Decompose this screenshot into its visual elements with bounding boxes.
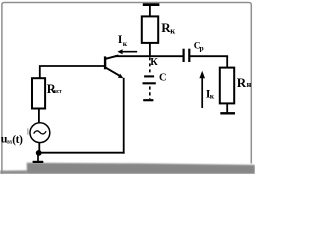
resistor Rk body [142,16,158,43]
svg-text:к: к [170,26,175,36]
arrow In [199,71,205,108]
capacitor Cp right plate [188,49,190,62]
stray mark (scan artifact) [27,128,28,134]
svg-text:R: R [237,75,247,90]
label In [206,86,215,100]
source sine symbol [34,131,47,134]
arrow Ik [117,49,137,54]
wire base horizontal [40,66,105,79]
wire bottom return [39,152,125,154]
wire dot to ground [37,153,39,161]
resistor Rist body [32,78,45,108]
svg-text:К: К [150,57,158,68]
ground bar main [33,161,44,163]
label Rn [237,75,252,90]
label Rk [161,20,175,36]
svg-text:C: C [159,72,167,83]
svg-text:к: к [123,39,128,48]
label uvx(t) [1,132,23,146]
ground bar under Rn [220,112,235,114]
label Rist [47,82,62,96]
svg-text:н: н [247,80,252,89]
transistor collector lead [106,55,119,58]
capacitor C top plate [144,75,154,77]
transistor emitter lead with arrow [106,68,124,79]
wire corner down to Rn [226,56,228,68]
capacitor Cp left plate [183,49,185,62]
wire collector node horizontal [115,55,183,57]
wire Rk to node K [149,43,151,57]
wire power to Rk [149,5,151,17]
power rail bar [143,3,160,6]
resistor Rn body [220,68,234,104]
label Ik [118,32,128,48]
junction dot [36,150,42,156]
wire dashed node K down [149,57,151,74]
svg-text:(t): (t) [12,134,23,146]
capacitor C bottom plate [143,82,156,84]
ground bar under C [143,99,153,101]
wire Rn to ground [226,103,228,112]
label Cp [194,41,204,52]
wire emitter down [123,78,125,154]
svg-text:к: к [210,92,215,101]
svg-text:р: р [200,43,204,52]
wire source to ground node [38,142,40,153]
frame border (decorative) [2,3,251,175]
svg-text:ист: ист [54,88,62,95]
wire Rist to source [38,109,40,124]
wire Cp to right corner [190,55,228,57]
wire dashed C down [149,86,151,99]
source uvx circle [30,123,50,143]
transistor VT base bar [104,56,106,69]
